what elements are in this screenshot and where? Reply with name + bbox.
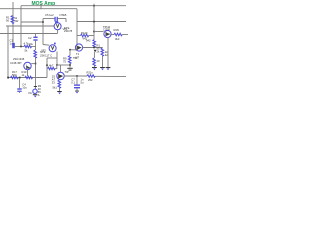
svg-text:10u: 10u bbox=[29, 42, 34, 46]
rail y77.5 bbox=[8, 77, 47, 79]
svg-text:3k3: 3k3 bbox=[115, 37, 120, 41]
wire vertical x13 bbox=[12, 2, 14, 43]
resistor R12 vertical x70 bbox=[68, 56, 71, 64]
svg-text:56: 56 bbox=[6, 18, 9, 22]
resistor R15 below Q3 bbox=[58, 80, 61, 88]
wire TIP42 to R3k3 bbox=[111, 34, 114, 36]
source VG1 bbox=[35, 78, 37, 90]
svg-text:75: 75 bbox=[63, 59, 66, 63]
svg-text:33: 33 bbox=[52, 81, 55, 85]
svg-text:2SC1345: 2SC1345 bbox=[13, 57, 25, 61]
svg-text:R140: R140 bbox=[81, 31, 88, 35]
svg-text:MOS Amp: MOS Amp bbox=[32, 1, 56, 7]
svg-text:10u: 10u bbox=[22, 86, 27, 90]
wire line y65 bbox=[57, 64, 70, 66]
svg-text:0.1: 0.1 bbox=[71, 81, 75, 85]
resistor R17 horizontal bbox=[24, 45, 32, 47]
resistor R19 3k3 bbox=[114, 33, 122, 36]
svg-text:C138 45T: C138 45T bbox=[10, 61, 22, 65]
wire x77 cap lead bbox=[76, 76, 78, 84]
svg-text:5k1: 5k1 bbox=[53, 86, 58, 90]
resistor R13 on rail bbox=[11, 76, 19, 78]
svg-text:560: 560 bbox=[12, 73, 17, 77]
wire corner x66 bbox=[65, 19, 67, 23]
wire stub x41 bbox=[40, 4, 42, 9]
ground TIP42 bbox=[106, 67, 111, 68]
ground R12 bbox=[67, 68, 72, 69]
ground R7 bbox=[100, 67, 105, 68]
ground R15 bbox=[57, 91, 62, 92]
transistor Q3 2SA bbox=[57, 72, 64, 79]
transistor Q1 bbox=[75, 44, 82, 51]
wire R140 stubs bbox=[77, 35, 81, 37]
svg-text:5u: 5u bbox=[81, 81, 84, 85]
svg-text:C/TIP: C/TIP bbox=[103, 28, 110, 32]
wire R15 down bbox=[59, 88, 61, 91]
node x77 y76 bbox=[76, 75, 78, 77]
svg-text:C5 1u2: C5 1u2 bbox=[45, 13, 54, 17]
wire output right bbox=[122, 34, 128, 36]
node x70 y65 bbox=[69, 64, 71, 66]
wire box y58 bbox=[47, 57, 57, 59]
wire line y26 bbox=[6, 25, 54, 27]
wire R12 bottom bbox=[69, 63, 71, 67]
wire Q2 emitter bbox=[27, 70, 29, 76]
meter VF1 bbox=[54, 21, 61, 30]
capacitor C2 plates bbox=[54, 17, 55, 22]
wire base TIP42 bbox=[94, 31, 104, 33]
wire corner y26 left bbox=[6, 25, 8, 27]
wire emitter line y76 bbox=[64, 75, 87, 77]
svg-text:1u: 1u bbox=[10, 42, 13, 46]
node x8 y77.5 bbox=[7, 77, 9, 79]
wire x35 down bbox=[35, 58, 37, 78]
wire input y46.5 bbox=[15, 46, 24, 48]
svg-text:4k7: 4k7 bbox=[49, 63, 54, 67]
svg-text:2SK78: 2SK78 bbox=[64, 29, 73, 33]
transistor TIP42 bbox=[104, 30, 111, 37]
wire vertical x21 bbox=[20, 6, 22, 47]
node x94 y47.5 bbox=[93, 47, 95, 49]
wire line y22 bbox=[21, 21, 43, 23]
wire corner x47 bbox=[46, 58, 48, 78]
svg-text:10: 10 bbox=[97, 59, 100, 63]
resistor R140 horizontal bbox=[81, 34, 89, 37]
wire output y76.5 bbox=[95, 75, 126, 77]
svg-text:R21s: R21s bbox=[87, 70, 94, 74]
wire R6 down bbox=[93, 66, 95, 67]
capacitor C3 vertical bbox=[35, 34, 37, 37]
svg-text:5W: 5W bbox=[14, 19, 18, 23]
resistor R18 252 bbox=[87, 75, 95, 78]
wire cap line y18.5 bbox=[43, 18, 55, 20]
ground R6 bbox=[92, 67, 97, 68]
svg-text:942: 942 bbox=[86, 38, 91, 42]
node x35 y63.5 bbox=[35, 63, 37, 65]
svg-text:252: 252 bbox=[88, 78, 93, 82]
wire box x57 bbox=[56, 52, 58, 66]
wire y46.5 right bbox=[31, 46, 36, 48]
svg-text:NT: NT bbox=[76, 55, 80, 59]
resistor R940 vertical x94 bbox=[93, 40, 96, 48]
ground C5 bbox=[75, 90, 79, 93]
meter VF2 bbox=[49, 43, 56, 52]
resistor R7 vertical x102.5 bbox=[102, 47, 104, 50]
node x57 y65 bbox=[56, 64, 58, 66]
wire R11 right bbox=[55, 66, 57, 69]
capacitor C1 bbox=[12, 43, 15, 48]
wire x94 to R below bbox=[93, 52, 95, 58]
resistor R11 horizontal y68.5 bbox=[48, 67, 56, 69]
ground VG1 bbox=[33, 94, 38, 95]
node x94 rail3 bbox=[93, 21, 95, 23]
wire vertical x77 bbox=[76, 9, 78, 45]
wire cap C4 lead bbox=[19, 78, 21, 88]
wire R12 top stub bbox=[69, 50, 71, 56]
wire Q3 base lead bbox=[60, 65, 62, 72]
node x94 rail1 bbox=[93, 5, 94, 6]
node x19.5 y77.5 bbox=[19, 77, 21, 79]
wire C5 down bbox=[76, 88, 78, 90]
svg-text:R2N: R2N bbox=[114, 28, 119, 32]
wire vertical x8 bbox=[7, 26, 9, 78]
node x70 y49.7 bbox=[69, 49, 71, 51]
wire emitter line y47.5 bbox=[83, 47, 103, 49]
resistor R14 on rail bbox=[25, 76, 33, 78]
svg-text:VF2: VF2 bbox=[41, 48, 46, 52]
svg-text:T1: T1 bbox=[76, 52, 80, 56]
arrow down x95 bbox=[94, 50, 97, 53]
svg-text:2SK117 C: 2SK117 C bbox=[40, 53, 52, 57]
svg-text:A: A bbox=[38, 93, 40, 97]
wire base Q2 bbox=[31, 63, 35, 65]
resistor R4 vertical x35 bbox=[34, 50, 37, 58]
capacitor C5 bbox=[74, 84, 80, 85]
wire meter VF1 lead bbox=[57, 30, 59, 34]
wire Q1 emitter left bbox=[70, 49, 77, 51]
wire vertical x94 top bbox=[93, 4, 95, 40]
node x94 y31.5 bbox=[93, 31, 95, 33]
wire rail y8.5 bbox=[0, 8, 77, 10]
wire VF2 lead left bbox=[43, 44, 49, 47]
svg-text:VG: VG bbox=[28, 91, 32, 95]
node x47 y65 bbox=[46, 64, 48, 66]
ground C4 bbox=[19, 92, 21, 93]
wire rail y21.5 bbox=[77, 21, 126, 23]
resistor R16 vertical bbox=[11, 16, 14, 24]
wire R7 down bbox=[102, 56, 104, 67]
svg-text:NTE5: NTE5 bbox=[60, 13, 67, 17]
wire line y33.5 bbox=[0, 33, 58, 35]
wire vertical x43 bbox=[42, 19, 44, 45]
transistor Q2 2SC1345 bbox=[24, 62, 31, 69]
capacitor C4 bbox=[17, 88, 21, 89]
wire rail top y6 bbox=[21, 5, 126, 7]
svg-text:TIP: TIP bbox=[65, 70, 69, 74]
wire TIP42 emitter x108 bbox=[107, 37, 109, 67]
resistor R6 vertical x94 bbox=[93, 58, 96, 66]
node x43 y22 bbox=[42, 21, 44, 23]
svg-text:C2: C2 bbox=[28, 36, 32, 40]
node x21 y46.5 bbox=[20, 46, 22, 48]
